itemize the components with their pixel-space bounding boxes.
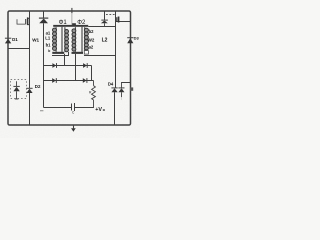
transistor Q1 <box>17 17 30 25</box>
resistor R <box>92 81 96 108</box>
transformer top bar <box>53 25 88 27</box>
diode (in dashed box) <box>13 81 19 99</box>
top-center rectifier diode <box>101 12 108 28</box>
diode D4 <box>111 88 117 125</box>
dashed link <box>106 14 115 16</box>
terminal box (W2 bottom) <box>84 51 88 55</box>
wire right bus <box>91 66 93 81</box>
wire T1 to wire A <box>64 54 66 66</box>
node (frame smudge) <box>130 87 133 90</box>
winding T1 right <box>65 27 69 52</box>
core leg T2 <box>81 27 83 52</box>
wire right bus vertical <box>115 12 117 88</box>
wire B <box>44 80 94 82</box>
wire left bus <box>43 23 45 107</box>
diode (right of D4) <box>118 83 130 100</box>
transistor Q2 <box>116 17 131 23</box>
diode D1 <box>5 38 11 43</box>
transformer bottom bar T1 <box>52 52 64 54</box>
wire T2 to wire B <box>75 54 77 81</box>
wire from left frame <box>8 48 30 50</box>
wire T2 bottom to right bus <box>84 55 116 57</box>
dashed box (optional diode) <box>11 80 27 99</box>
tick <box>40 110 43 112</box>
diode (wire B right) <box>83 78 87 83</box>
wire A <box>44 65 92 67</box>
winding L1 <box>53 27 57 52</box>
diode D3 <box>127 38 133 44</box>
wire +Vo rail <box>44 107 72 109</box>
diode (wire A right) <box>83 63 87 68</box>
diode (wire B left) <box>52 78 56 83</box>
diode (wire A left) <box>52 63 56 68</box>
wire Q1 bus <box>29 12 31 89</box>
winding W2 <box>84 27 88 50</box>
top-left rectifier diode <box>39 12 48 24</box>
winding T2 left <box>72 27 76 52</box>
wire transformer top to right bus <box>88 26 115 28</box>
diode D2 <box>26 88 32 125</box>
wire T1 bottom <box>52 52 69 56</box>
node (top rail tap) <box>71 8 73 13</box>
capacitor C <box>72 103 75 111</box>
frame <box>8 11 131 125</box>
ground arrow <box>71 126 76 132</box>
transformer bottom bar T2 <box>72 52 84 54</box>
core leg T1 <box>61 27 63 52</box>
